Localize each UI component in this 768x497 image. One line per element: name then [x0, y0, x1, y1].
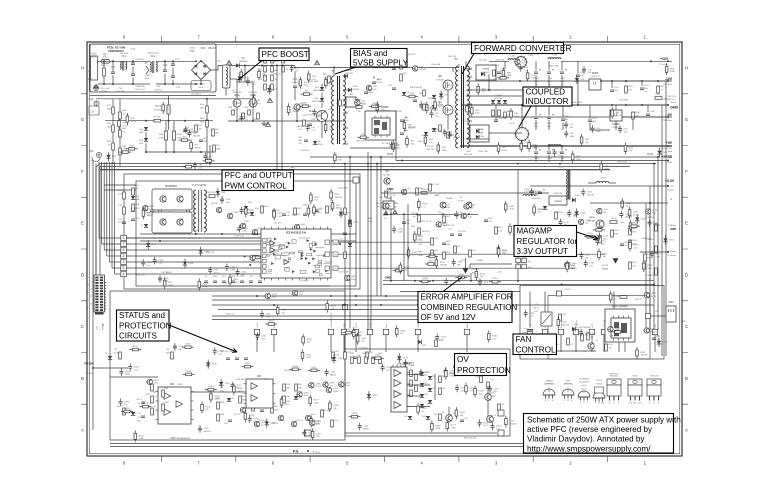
components on x345 bus	[344, 208, 347, 215]
svg-text:B: B	[545, 400, 547, 402]
resistor R176	[280, 399, 283, 405]
svg-text:R41: R41	[122, 128, 127, 130]
resistor R107	[245, 208, 248, 214]
svg-text:E: E	[552, 400, 554, 402]
svg-text:473: 473	[488, 221, 492, 223]
svg-text:1N4148: 1N4148	[430, 110, 438, 112]
svg-text:C100: C100	[230, 267, 236, 269]
svg-text:1u63V: 1u63V	[367, 92, 373, 94]
svg-text:102k 14V: 102k 14V	[448, 56, 457, 58]
diode D229	[367, 394, 371, 397]
diode D43	[320, 98, 324, 101]
svg-text:8: 8	[123, 35, 126, 40]
svg-text:104: 104	[298, 129, 302, 131]
res R309	[431, 238, 434, 245]
svg-text:2,2k: 2,2k	[304, 85, 308, 87]
svg-text:C231: C231	[496, 426, 502, 428]
capacitor C236	[579, 332, 583, 334]
wire sec lower	[489, 132, 522, 134]
svg-text:C4O7: C4O7	[591, 118, 597, 120]
transistor Q132	[461, 213, 466, 218]
diode D204	[332, 357, 336, 360]
svg-text:R69 330E: R69 330E	[549, 66, 559, 68]
wire	[230, 65, 236, 67]
diodes base	[432, 128, 436, 131]
resistor R136	[458, 276, 464, 279]
svg-text:4,7k: 4,7k	[448, 135, 452, 137]
diode D187	[206, 363, 210, 366]
svg-text:RGP10B: RGP10B	[351, 89, 360, 91]
resistor R94	[331, 203, 334, 209]
cap C408	[561, 119, 565, 121]
svg-text:R52: R52	[434, 414, 437, 416]
transistor Q10	[252, 229, 257, 234]
svg-text:0.1u R021: 0.1u R021	[358, 348, 368, 350]
svg-text:8: 8	[123, 461, 126, 466]
svg-text:0,1k: 0,1k	[335, 355, 339, 357]
resistor R159	[353, 330, 356, 336]
resistor R170	[210, 394, 213, 400]
diode D302	[543, 206, 547, 209]
diode column D14	[144, 127, 148, 130]
svg-text:+C17: +C17	[203, 138, 208, 140]
svg-text:C40: C40	[425, 104, 430, 106]
svg-text:D1: D1	[232, 398, 235, 400]
svg-text:PC(G)1: PC(G)1	[427, 146, 435, 148]
svg-text:0n: 0n	[154, 406, 156, 408]
svg-text:2,2k: 2,2k	[632, 266, 636, 268]
svg-text:R2O6: R2O6	[634, 112, 640, 114]
svg-text:R22: R22	[312, 76, 317, 78]
svg-text:C271: C271	[601, 241, 607, 243]
svg-text:PWM: PWM	[647, 152, 653, 156]
svg-text:R00M2: R00M2	[477, 260, 484, 262]
svg-text:MAGAMP: MAGAMP	[517, 227, 553, 236]
coupled inductor L402	[516, 128, 529, 141]
svg-text:D3O1: D3O1	[575, 195, 581, 197]
res P0k	[213, 145, 216, 152]
resistor R171	[301, 352, 304, 358]
svg-text:C404: C404	[534, 123, 540, 125]
res R56	[400, 62, 403, 69]
resistor R224	[455, 410, 458, 416]
resistor R8	[304, 93, 310, 96]
svg-text:STATUS and: STATUS and	[119, 311, 165, 320]
svg-text:IC3O3: IC3O3	[602, 265, 609, 267]
net square PG	[305, 430, 311, 436]
warning triangle in EMI box	[94, 85, 98, 89]
svg-text:R47: R47	[502, 147, 507, 149]
svg-text:330E: 330E	[442, 150, 447, 152]
svg-text:R73: R73	[629, 147, 634, 149]
capacitor C194	[325, 372, 329, 374]
res R97	[439, 414, 442, 421]
svg-text:L3O2: L3O2	[558, 167, 564, 169]
res R55	[416, 188, 419, 195]
svg-text:+12V: +12V	[681, 321, 687, 323]
standby switcher IC1 TOP200	[317, 111, 328, 122]
junction dots buses	[209, 163, 211, 165]
svg-text:CY1: CY1	[131, 48, 136, 51]
svg-text:1k: 1k	[661, 90, 663, 92]
svg-text:R? 22E: R? 22E	[154, 117, 161, 119]
res R309m	[644, 254, 647, 261]
res R101	[466, 106, 469, 112]
resistor R48	[520, 143, 523, 149]
svg-text:70n: 70n	[383, 218, 386, 220]
svg-text:C270: C270	[656, 254, 662, 256]
svg-text:R8: R8	[305, 91, 309, 93]
resistor R40b	[119, 130, 122, 137]
cap C302	[400, 120, 404, 122]
svg-text:TOP2OO: TOP2OO	[649, 376, 658, 378]
svg-text:1k 1%: 1k 1%	[214, 272, 220, 274]
svg-text:10k: 10k	[585, 142, 588, 144]
svg-text:R121: R121	[418, 236, 424, 238]
svg-text:Q105: Q105	[149, 206, 155, 208]
resistor R266	[629, 223, 632, 229]
svg-text:C126: C126	[398, 229, 404, 231]
svg-text:C52: C52	[464, 418, 467, 420]
svg-text:33k: 33k	[634, 228, 637, 230]
right vertical bundle	[653, 164, 655, 330]
wire	[321, 84, 323, 87]
capacitor C228	[404, 362, 408, 364]
svg-text:R113: R113	[335, 194, 341, 196]
svg-text:P1: P1	[103, 52, 107, 56]
svg-text:1%: 1%	[614, 299, 617, 301]
svg-text:510E: 510E	[333, 391, 338, 393]
svg-text:R3O6: R3O6	[631, 240, 637, 242]
capacitor C200	[198, 428, 202, 430]
cap C30	[392, 68, 396, 70]
svg-text:1n: 1n	[138, 417, 140, 419]
svg-text:33k: 33k	[249, 418, 252, 420]
svg-text:1%: 1%	[260, 79, 263, 81]
res R79	[162, 390, 165, 397]
resistor R237	[636, 350, 639, 356]
svg-text:PWM: PWM	[387, 152, 393, 156]
svg-text:+5V: +5V	[666, 141, 673, 145]
resistor R75	[182, 139, 188, 142]
wire	[156, 60, 196, 62]
cap C206	[646, 114, 650, 116]
svg-text:PS ON: PS ON	[84, 362, 93, 366]
wire sec mid	[466, 95, 522, 97]
svg-text:5,7k: 5,7k	[153, 396, 157, 398]
svg-text:27k: 27k	[412, 217, 415, 219]
svg-text:433k: 433k	[200, 108, 204, 110]
capacitor C148	[581, 192, 585, 194]
capacitor C152	[619, 214, 623, 216]
svg-text:C57: C57	[624, 129, 629, 131]
resistor R39	[403, 123, 406, 129]
resistor R34	[437, 145, 440, 151]
svg-text:2,4k: 2,4k	[590, 333, 594, 335]
cap C57	[260, 410, 264, 412]
wire bus bend	[96, 164, 100, 310]
svg-text:R153: R153	[538, 209, 544, 211]
tap square wires	[127, 237, 262, 239]
res R94	[331, 420, 334, 427]
svg-text:R119: R119	[493, 278, 499, 280]
diode D28	[426, 416, 430, 419]
resistor R262	[276, 308, 279, 314]
wire pfc drain	[230, 78, 237, 80]
resistor R44	[424, 137, 427, 143]
resistor R161	[356, 336, 359, 342]
svg-text:R02: R02	[446, 216, 451, 218]
svg-text:CD222M: CD222M	[116, 91, 125, 93]
svg-text:10k: 10k	[484, 284, 487, 286]
status rail wires	[212, 295, 508, 297]
res R70	[366, 352, 369, 359]
svg-text:PS ON: PS ON	[103, 323, 105, 330]
svg-text:47n: 47n	[124, 404, 127, 406]
svg-text:Q144: Q144	[652, 210, 658, 212]
svg-text:C841: C841	[348, 94, 354, 96]
svg-text:+C3: +C3	[137, 413, 142, 415]
svg-text:103u: 103u	[564, 119, 568, 121]
svg-text:D14E: D14E	[491, 396, 496, 398]
capacitor C89	[208, 270, 212, 272]
svg-text:C33: C33	[118, 205, 123, 207]
svg-text:(1-p-r): (1-p-r)	[565, 382, 571, 385]
svg-text:C8O1: C8O1	[487, 218, 493, 220]
svg-text:R58 20k: R58 20k	[421, 189, 428, 191]
svg-text:16v: 16v	[548, 84, 551, 86]
res R57	[400, 74, 403, 81]
resistor R129	[418, 202, 421, 208]
capacitor C221	[455, 388, 459, 390]
capacitor C169	[128, 367, 132, 369]
svg-text:C87: C87	[193, 133, 198, 135]
res Rfan5	[587, 333, 590, 340]
svg-text:330E: 330E	[647, 268, 652, 270]
svg-text:33k: 33k	[243, 231, 246, 233]
svg-text:R135: R135	[509, 206, 515, 208]
wire +12V rail	[489, 60, 509, 62]
svg-text:C14: C14	[446, 204, 451, 206]
package legend TL431	[593, 392, 605, 398]
svg-text:vRkm: vRkm	[417, 251, 422, 253]
capacitor C141	[579, 255, 583, 257]
svg-text:D214: D214	[403, 357, 409, 359]
svg-text:PE: PE	[89, 149, 93, 153]
svg-text:(c1-a): (c1-a)	[547, 383, 552, 385]
sub-EMI wires	[90, 95, 216, 97]
svg-text:22,7k: 22,7k	[118, 222, 123, 224]
svg-text:PFC BOOST: PFC BOOST	[262, 50, 309, 59]
res R35	[132, 204, 135, 211]
resistor R157	[598, 251, 601, 257]
svg-text:C102: C102	[243, 228, 249, 230]
svg-text:R262: R262	[281, 310, 287, 312]
capacitor C190	[119, 401, 123, 403]
resistor R2	[240, 72, 243, 78]
svg-text:Vladimir Davydov). Annotated b: Vladimir Davydov). Annotated by	[527, 435, 645, 444]
resistor R76	[162, 105, 165, 111]
svg-text:L3A49a: L3A49a	[647, 216, 655, 219]
svg-text:YOA: YOA	[135, 203, 140, 206]
bottom rail	[110, 443, 600, 445]
svg-text:C273: C273	[653, 222, 659, 224]
status rail wires2	[212, 315, 508, 317]
svg-text:B10: B10	[274, 406, 278, 408]
res R203	[655, 97, 662, 100]
svg-text:D268 0.1u: D268 0.1u	[641, 238, 651, 240]
resistor R177	[309, 398, 312, 404]
transistor Q257	[292, 290, 297, 295]
svg-text:L/White: L/White	[669, 250, 677, 253]
svg-text:330E: 330E	[573, 216, 578, 218]
svg-text:25V: 25V	[298, 143, 302, 145]
svg-text:+4V8: +4V8	[574, 324, 580, 326]
svg-text:C1G2: C1G2	[497, 118, 503, 120]
resistor R123	[475, 271, 478, 277]
svg-text:C74: C74	[588, 69, 593, 71]
resistor R165	[302, 337, 305, 343]
svg-text:N: N	[88, 69, 90, 73]
coupled inductor L302	[566, 170, 567, 179]
svg-text:4148: 4148	[446, 207, 451, 209]
svg-text:1%: 1%	[318, 114, 321, 116]
snubber R102 C102	[493, 70, 496, 76]
svg-text:IRFP460: IRFP460	[233, 92, 242, 94]
bridge rectifier CR1 KBL6A	[192, 61, 211, 80]
svg-text:R137: R137	[440, 262, 446, 264]
svg-text:R68: R68	[670, 68, 675, 70]
res R04m	[212, 129, 215, 136]
svg-text:R06: R06	[376, 203, 381, 205]
svg-text:C403: C403	[352, 86, 358, 88]
svg-text:C238 1N4148: C238 1N4148	[577, 327, 591, 329]
svg-text:A444W: A444W	[314, 89, 321, 92]
svg-text:C945: C945	[234, 282, 240, 284]
svg-text:1k 1%: 1k 1%	[131, 121, 137, 123]
svg-text:2,2k: 2,2k	[307, 342, 311, 344]
cap C305	[538, 192, 542, 194]
svg-text:1,1M: 1,1M	[164, 388, 169, 390]
res R33	[123, 207, 126, 214]
svg-text:R33: R33	[134, 188, 139, 190]
svg-text:D14: D14	[139, 129, 144, 131]
resistor R164	[346, 331, 352, 334]
resistor R54	[477, 86, 480, 92]
svg-text:+5V: +5V	[655, 324, 657, 328]
svg-text:BIAS and: BIAS and	[353, 49, 388, 58]
svg-text:L404: L404	[511, 56, 517, 58]
svg-text:L3A49L: L3A49L	[647, 274, 655, 277]
transistor Q255	[250, 255, 255, 260]
svg-text:30k: 30k	[286, 388, 289, 390]
svg-text:Curr: Curr	[385, 324, 388, 328]
decoupling caps row under IC2	[204, 281, 208, 283]
svg-text:1N4148: 1N4148	[653, 225, 661, 227]
svg-text:1: 1	[123, 236, 125, 240]
svg-text:10k: 10k	[318, 212, 321, 214]
resistor R156	[621, 201, 624, 207]
cap Cfan	[528, 330, 532, 332]
wire right stub2	[667, 185, 669, 187]
svg-text:C84: C84	[189, 129, 194, 131]
svg-text:2200u/10V: 2200u/10V	[531, 198, 541, 200]
res RN2	[487, 382, 490, 389]
svg-text:D33 6,2k: D33 6,2k	[301, 150, 311, 152]
diode Dfan	[572, 327, 575, 331]
svg-text:10M: 10M	[434, 250, 438, 252]
wire fan rails2	[528, 350, 596, 352]
wire	[112, 99, 114, 107]
diode D101	[183, 262, 187, 265]
svg-text:R237: R237	[641, 352, 647, 354]
svg-text:L N: L N	[90, 111, 94, 114]
wire -5V rail	[470, 116, 672, 118]
resistor R153	[533, 207, 536, 213]
capacitor C27	[390, 144, 394, 146]
svg-text:10V: 10V	[241, 275, 245, 277]
svg-text:C133: C133	[460, 214, 466, 216]
resistor R203	[201, 404, 204, 410]
svg-text:Q132: Q132	[468, 214, 474, 216]
svg-text:"11"Green: "11"Green	[666, 254, 677, 257]
svg-text:Q167: Q167	[154, 380, 160, 382]
svg-text:EXBC4W: EXBC4W	[554, 193, 563, 195]
resistor R21	[334, 155, 337, 161]
svg-text:R129: R129	[422, 204, 428, 206]
diode D65	[657, 151, 661, 154]
resistor R208	[292, 368, 298, 371]
svg-text:D28 2,2k: D28 2,2k	[356, 141, 365, 143]
callout OV PROTECTION	[455, 354, 507, 376]
svg-text:0.1u: 0.1u	[496, 428, 500, 430]
svg-text:C243 104: C243 104	[609, 336, 619, 338]
svg-text:Q242: Q242	[651, 293, 657, 295]
svg-text:C31: C31	[453, 134, 458, 136]
svg-text:14F v2 @: 14F v2 @	[135, 89, 145, 91]
svg-text:BAV21: BAV21	[651, 330, 658, 333]
svg-text:E: E	[81, 221, 84, 226]
wire 5vsb sec2	[373, 76, 375, 79]
diode D214	[397, 356, 401, 359]
svg-text:D149: D149	[580, 212, 586, 214]
cap C801	[484, 220, 488, 222]
resistor R46	[502, 70, 505, 76]
svg-text:R52: R52	[531, 75, 536, 77]
svg-text:D182: D182	[270, 423, 276, 425]
EMI filter module outline PCB EC-006	[90, 44, 216, 92]
svg-text:C219: C219	[494, 388, 500, 390]
svg-text:C90 10k: C90 10k	[273, 223, 282, 225]
svg-text:D4: D4	[241, 56, 245, 60]
svg-text:330E: 330E	[214, 399, 219, 401]
svg-text:D265: D265	[641, 219, 647, 221]
wire	[447, 90, 449, 105]
svg-text:IC2 KA3511 1%: IC2 KA3511 1%	[286, 231, 307, 235]
transistor Q18	[366, 85, 371, 90]
resistor R5	[299, 80, 302, 86]
svg-text:R127: R127	[428, 261, 434, 263]
svg-text:R124: R124	[502, 251, 508, 253]
resistor R12b	[112, 125, 115, 132]
diode D7	[144, 224, 148, 227]
svg-text:R7A: R7A	[228, 106, 233, 109]
transistor Q12	[383, 203, 389, 209]
resistor R88	[129, 148, 135, 151]
svg-text:D: D	[81, 272, 84, 277]
svg-text:R4: R4	[115, 349, 118, 351]
wire out y139	[466, 138, 489, 140]
